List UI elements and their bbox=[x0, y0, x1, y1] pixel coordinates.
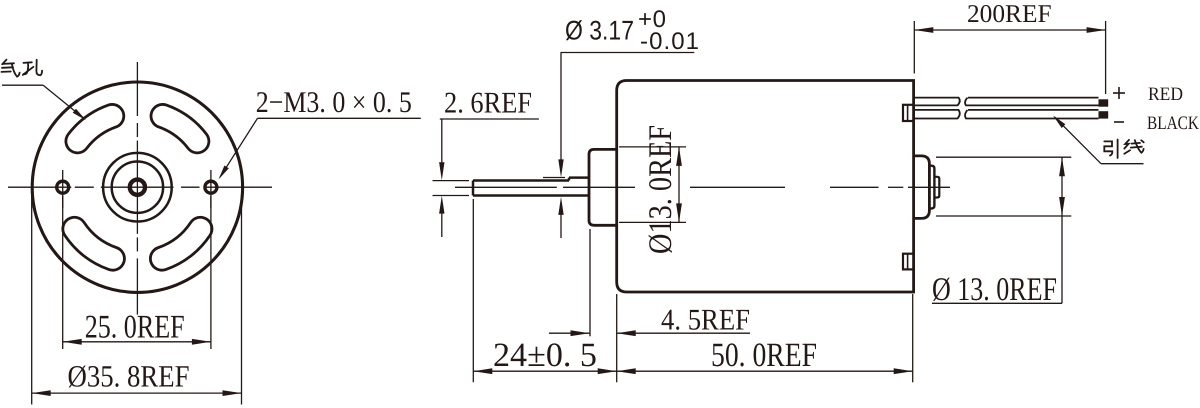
lead wire lower (black) bbox=[914, 110, 960, 119]
vent slot top-left bbox=[78, 116, 113, 141]
extension line body front bbox=[616, 294, 618, 382]
extension line body rear bbox=[912, 294, 914, 382]
svg-text:2−M3. 0 × 0. 5: 2−M3. 0 × 0. 5 bbox=[256, 86, 412, 119]
lead wire upper (red) bbox=[914, 98, 960, 106]
svg-text:Ø13. 0REF: Ø13. 0REF bbox=[643, 125, 679, 254]
extension line shaft tip bbox=[472, 199, 474, 382]
extension line circle left bbox=[31, 195, 33, 405]
svg-text:2. 6REF: 2. 6REF bbox=[444, 87, 532, 120]
3.17 leader+arrows bbox=[561, 52, 695, 54]
air-hole label (qi kong) bbox=[2, 60, 6, 65]
svg-text:25. 0REF: 25. 0REF bbox=[85, 310, 185, 346]
motor body bbox=[617, 81, 914, 293]
minus sign bbox=[1114, 121, 1124, 123]
dimension 4.5REF bbox=[549, 332, 590, 334]
extension line left hole bbox=[62, 196, 64, 349]
svg-text:50. 0REF: 50. 0REF bbox=[711, 337, 817, 374]
front bushing bbox=[589, 149, 618, 225]
dimension 25.0REF bbox=[63, 341, 211, 343]
shaft outline bbox=[473, 179, 569, 182]
dimension 35.8REF bbox=[32, 392, 242, 394]
svg-text:Ø 3.17: Ø 3.17 bbox=[565, 16, 634, 46]
lead-wire label (yin xian) bbox=[1104, 141, 1112, 155]
svg-text:Ø35. 8REF: Ø35. 8REF bbox=[68, 359, 190, 394]
svg-text:24±0. 5: 24±0. 5 bbox=[493, 337, 597, 374]
motor end-cap outer circle bbox=[32, 82, 242, 292]
vent slot bottom-right bbox=[162, 229, 200, 259]
dimension right 13.0REF bbox=[1061, 157, 1063, 216]
side view centerline bbox=[455, 186, 557, 188]
2.6REF leader+arrows bbox=[440, 118, 539, 120]
air-hole leader bbox=[2, 84, 43, 86]
shaft circle bbox=[130, 180, 145, 195]
svg-text:200REF: 200REF bbox=[967, 0, 1052, 28]
svg-text:4. 5REF: 4. 5REF bbox=[661, 304, 750, 337]
dimension 50.0REF bbox=[617, 370, 913, 372]
hub circle bbox=[112, 162, 163, 213]
extension lines internal 13.0REF bbox=[619, 146, 686, 148]
vent slot top-right bbox=[163, 116, 198, 141]
dimension 200REF bbox=[914, 29, 1105, 31]
svg-text:Ø 13. 0REF: Ø 13. 0REF bbox=[932, 272, 1057, 308]
rear shaft nub bbox=[934, 177, 939, 198]
left mounting hole bbox=[57, 181, 69, 193]
right mounting hole bbox=[205, 181, 217, 193]
front view centerline horizontal bbox=[8, 186, 71, 188]
svg-text:RED: RED bbox=[1148, 84, 1183, 105]
vent slot bottom-left bbox=[74, 229, 112, 259]
extension lines 200REF bbox=[913, 21, 915, 74]
dimension line internal 13.0REF bbox=[678, 147, 680, 223]
plus sign bbox=[1113, 92, 1125, 94]
terminal tab bottom bbox=[903, 254, 914, 270]
M3 leader bbox=[258, 117, 421, 119]
front view centerline vertical bbox=[136, 62, 138, 116]
svg-text:-0.01: -0.01 bbox=[640, 28, 699, 55]
extension line bushing face bbox=[589, 229, 591, 336]
bearing boss circle bbox=[103, 153, 172, 222]
rear boss step1 bbox=[914, 156, 930, 219]
extension line right hole bbox=[210, 196, 212, 349]
extension line circle right bbox=[241, 195, 243, 405]
extension lines right 13.0REF bbox=[936, 156, 1071, 158]
rear boss step2 bbox=[929, 166, 934, 209]
svg-text:BLACK: BLACK bbox=[1147, 113, 1199, 134]
lead-wire leader bbox=[1101, 163, 1144, 165]
terminal tab top bbox=[903, 105, 914, 121]
dimension 24±0.5 bbox=[473, 370, 616, 372]
